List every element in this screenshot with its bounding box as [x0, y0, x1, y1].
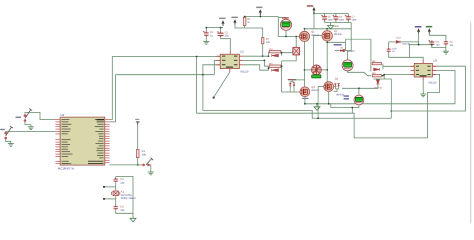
transistor Q2	[322, 31, 332, 41]
resistor R5	[372, 62, 381, 64]
U1 pins	[55, 120, 109, 164]
power flag label	[135, 119, 139, 120]
wire D5 node to AM2	[344, 51, 351, 60]
wire Q2 source branch	[327, 42, 345, 50]
node AM1 bottom	[285, 36, 287, 38]
crystal X1	[112, 191, 120, 196]
svg-text:CRYSTAL: CRYSTAL	[121, 194, 133, 197]
push button B2	[4, 126, 13, 139]
wire osc stub 1	[104, 186, 116, 188]
capacitor C3	[114, 178, 118, 182]
button B1 label	[16, 117, 22, 118]
wire pairA left stub	[268, 52, 270, 57]
node R7 bottom	[262, 55, 264, 57]
wire BR1 top to gate node	[295, 37, 297, 48]
ground cap bank	[328, 23, 334, 30]
wire reset button to ground	[150, 165, 151, 170]
power +5V arrow	[221, 20, 224, 26]
node pairA left	[268, 55, 270, 57]
ground C1	[203, 39, 209, 44]
gate driver U3 body	[414, 63, 432, 77]
wire U3 pin1 long route	[391, 66, 465, 111]
wire diagonal jog to pair2	[364, 72, 371, 75]
node MCLR junction	[137, 164, 139, 166]
wire U2 pin1 to pairA	[243, 55, 268, 57]
ground lower button	[8, 141, 14, 146]
wire left midpoint	[304, 42, 306, 87]
power arrow mid	[259, 9, 262, 15]
AM1 label	[282, 17, 289, 18]
transistor Q1	[299, 31, 309, 41]
wire U2 pin2 jog	[243, 60, 264, 66]
wire D10 net left	[389, 42, 397, 48]
wire C10 bottom to U3 top	[389, 45, 424, 61]
power VCC label	[426, 26, 432, 28]
capacitor C8	[428, 40, 434, 46]
wire crystal loop right	[116, 176, 133, 213]
wire R1 top lead	[137, 125, 139, 149]
zener D4	[293, 83, 295, 86]
node pin2 jog	[264, 60, 266, 62]
wire upper button to ground	[25, 122, 31, 125]
resistor R7	[262, 38, 264, 44]
svg-text:U3: U3	[433, 58, 437, 62]
transistor Q4	[324, 82, 334, 92]
wire D11 bottom	[377, 85, 379, 89]
diode D1	[272, 54, 279, 57]
capacitor C2	[217, 31, 223, 37]
ground C9	[443, 49, 449, 54]
diode D5	[340, 49, 344, 52]
wire C8 top	[431, 40, 433, 44]
U2 inner text	[222, 56, 237, 68]
wire U2 pin2 drop	[214, 60, 220, 74]
push button B1	[24, 109, 33, 122]
wire osc stub 2	[104, 198, 116, 200]
wire U3 bottom pin to ground	[422, 80, 424, 91]
svg-text:PIC16F877A: PIC16F877A	[58, 167, 74, 171]
svg-text:FREQ=16MHz: FREQ=16MHz	[121, 197, 137, 200]
resistor R3	[269, 51, 281, 53]
wire lower button to ground	[6, 139, 11, 141]
wire R1 bottom lead	[137, 158, 139, 165]
wire D5 left stub	[335, 50, 340, 52]
svg-text:C10: C10	[392, 47, 397, 50]
ground crystal	[130, 215, 136, 222]
transistor Q3	[300, 87, 310, 97]
node pairB left	[268, 67, 270, 69]
wire C8 C9 bottoms	[432, 45, 446, 49]
svg-text:IR2110: IR2110	[240, 71, 249, 74]
wire diagonal from U2 bottom pin	[214, 72, 230, 98]
node osc stub2 dot	[103, 198, 105, 200]
zener labels	[288, 79, 296, 80]
VM label b	[344, 98, 349, 99]
wire R2 hang	[244, 17, 246, 29]
wire AM1 rail to Q1 gate	[278, 36, 299, 38]
power +5V label	[219, 18, 225, 20]
power VDD arrow	[233, 19, 236, 25]
node rail Q2	[326, 28, 328, 30]
wire pairB left stub	[264, 66, 268, 70]
wire Q2 gate vertical drop	[312, 36, 314, 65]
wire pair2 out to U3	[383, 75, 414, 76]
node C1 top	[205, 27, 207, 29]
wire VCC to C9	[429, 32, 446, 40]
resistor R1	[136, 149, 139, 157]
node junction netB	[202, 74, 204, 76]
svg-text:IRF540: IRF540	[311, 89, 320, 92]
U3 inner text	[416, 66, 431, 77]
wire D11 top node	[374, 75, 392, 80]
svg-text:1N4148: 1N4148	[402, 43, 410, 46]
node right midpoint tap	[326, 69, 328, 71]
wire C1 C2 top rail	[206, 28, 223, 32]
wire AM1 bottom stub	[285, 30, 287, 36]
voltmeter VM1	[354, 95, 364, 105]
wire cap bank top bus	[314, 13, 348, 15]
wire +5 rail to ammeter	[245, 13, 286, 36]
node Q4 gate channel	[317, 117, 319, 119]
power flag +5V at R1	[136, 122, 140, 125]
wire Q2 gate stub	[313, 35, 322, 37]
wire right midpoint	[326, 41, 328, 82]
wire pair1 right stub	[382, 64, 384, 70]
wire crystal loop left segs	[115, 176, 117, 205]
push button RESET	[142, 158, 153, 167]
diode D2	[272, 69, 279, 72]
svg-text:GND: GND	[334, 25, 340, 28]
svg-text:10u: 10u	[225, 35, 230, 38]
svg-text:22p: 22p	[120, 181, 125, 184]
node junction netA	[196, 56, 198, 58]
Q3 extra label	[302, 98, 309, 99]
node osc stub1 dot	[103, 186, 105, 188]
ground bridge	[314, 104, 320, 111]
node D11 top	[383, 74, 385, 76]
diode D10	[396, 41, 400, 44]
ground reset button	[148, 170, 154, 175]
node rail Q1	[304, 28, 306, 30]
AM2 label	[334, 44, 342, 45]
wire Q2 drain stub	[326, 29, 328, 31]
capacitor C7	[345, 15, 351, 21]
resistor R6	[372, 75, 381, 77]
wire net B down channel	[203, 75, 391, 119]
svg-text:100n: 100n	[339, 18, 345, 21]
wire pairB to Q3 gate	[282, 61, 301, 92]
node pairB right	[281, 65, 283, 67]
node vm branch	[351, 107, 353, 109]
node C8	[431, 44, 433, 46]
wire VDD arrow net	[235, 25, 263, 28]
svg-text:10k: 10k	[142, 154, 147, 157]
diode D8	[374, 68, 380, 71]
node pairA right	[281, 52, 283, 54]
wire +12 stem	[418, 33, 420, 45]
power mid label	[256, 7, 262, 9]
wire net B from MCU to y74.7 rail	[110, 75, 215, 122]
wire Q4 gate drop to channel	[317, 86, 319, 118]
wire voltmeter bottom	[331, 104, 359, 108]
svg-text:IRF540: IRF540	[334, 33, 343, 36]
node rail R2	[244, 16, 246, 18]
wire R7 leads	[262, 28, 264, 56]
power VCC arrow	[428, 28, 431, 34]
svg-text:22p: 22p	[120, 209, 125, 212]
button B2 label	[0, 129, 5, 130]
wire pairA right stub	[282, 52, 293, 56]
wire source rail	[305, 70, 455, 103]
zener D7	[337, 83, 339, 86]
node src gnd	[316, 103, 318, 105]
ammeter AM2	[342, 60, 353, 71]
svg-text:U1: U1	[61, 113, 65, 117]
wire U2 pin3 drop	[203, 65, 220, 75]
node src Q4	[328, 103, 330, 105]
U2 pins	[216, 51, 243, 72]
svg-text:D10: D10	[396, 37, 401, 40]
wire net A from MCU to U2 pin1	[110, 57, 220, 120]
node pair2 right	[382, 75, 384, 77]
resistor R4	[269, 65, 281, 67]
wire Q4 gate stub	[318, 85, 324, 87]
node x391 y111	[390, 110, 392, 112]
node Q2 source	[326, 41, 328, 43]
svg-text:IRF540: IRF540	[336, 94, 345, 97]
wire cap bank bottom bus	[325, 21, 352, 51]
wire zener stubs	[290, 80, 304, 92]
wire C2 bottom to U2 top pin	[221, 37, 231, 50]
wire MCLR net	[110, 164, 143, 166]
wire upper button to MCU RB0	[25, 112, 55, 119]
resistor R2	[243, 17, 246, 25]
power VDD label	[231, 17, 237, 19]
gate driver U2 body	[220, 54, 239, 68]
svg-text:100n: 100n	[328, 18, 334, 21]
node left midpoint tap	[304, 69, 306, 71]
power +12V arrow	[417, 28, 420, 34]
node rail arrow	[313, 13, 315, 15]
capacitor C10	[387, 48, 391, 52]
wire drain rail	[305, 28, 352, 30]
node AM1 gate node	[295, 36, 297, 38]
wire y39 link	[345, 39, 371, 42]
ammeter AM1	[280, 19, 291, 30]
wire Q1 drain stub	[304, 29, 306, 32]
zener D3	[289, 83, 291, 86]
zener D6	[334, 83, 336, 86]
wire pairB right stub	[281, 66, 283, 70]
capacitor C9	[444, 41, 448, 45]
wire net A branch x=196.6 down to channel	[197, 57, 440, 138]
wire Q4 source	[328, 92, 330, 104]
wire vm branch down	[351, 108, 353, 114]
diode D11	[376, 80, 379, 84]
motor display	[312, 75, 321, 78]
capacitor C5	[321, 15, 327, 21]
wire C1 to ground	[205, 37, 207, 39]
microcontroller U1 body	[60, 117, 105, 165]
wire zener Q4 stubs	[334, 86, 339, 91]
power +12V label	[415, 26, 422, 28]
wire load left lead	[305, 69, 312, 71]
capacitor C4	[114, 206, 118, 210]
node VM top	[358, 87, 360, 89]
VM label a	[344, 95, 349, 96]
wire AM2 bottom	[348, 71, 364, 72]
svg-text:U2: U2	[240, 49, 244, 53]
wire voltmeter top rail	[342, 88, 378, 95]
wire +12 node rail	[409, 44, 430, 46]
node diagonal end dot	[213, 97, 215, 99]
wire crystal ground stub	[132, 213, 134, 215]
wire Q3 source	[304, 97, 306, 104]
svg-text:IR2110: IR2110	[428, 81, 437, 84]
power +24V label	[307, 5, 313, 7]
U1 pin name text	[62, 119, 105, 164]
node +12	[418, 44, 420, 46]
node rail arrow	[259, 16, 261, 18]
U3 pins	[411, 60, 436, 81]
wire D10 right to +12 node	[401, 42, 419, 45]
wire load right lead	[321, 69, 327, 71]
power +24V arrow	[312, 7, 315, 13]
wire BR1 bottom	[282, 55, 297, 61]
wire +24 stem to rail	[313, 13, 315, 29]
node C2 top	[220, 27, 222, 29]
wire AM2out to pair stubs	[370, 39, 372, 71]
svg-text:100n: 100n	[352, 18, 358, 21]
node src Q3	[304, 103, 306, 105]
wire U2 pin3 to pairB	[243, 65, 268, 70]
capacitor C1	[203, 31, 209, 37]
capacitor C6	[333, 15, 339, 21]
ground upper button	[28, 125, 34, 130]
bridge BR1	[292, 47, 300, 56]
wire lower button to MCU pin	[6, 131, 56, 133]
motor load M1	[312, 65, 322, 75]
window border	[470, 23, 472, 224]
wire D11 down to channel	[390, 79, 392, 118]
svg-text:Q4: Q4	[335, 77, 339, 80]
ground U3	[420, 92, 426, 97]
wire pair1 out to U3	[383, 65, 414, 67]
